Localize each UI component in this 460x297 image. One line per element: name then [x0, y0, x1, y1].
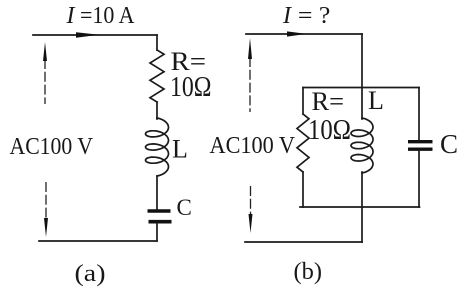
svg-text:C: C [440, 129, 458, 159]
voltage up arrow (b) [249, 57, 251, 112]
wire R branch bottom (b) [302, 172, 304, 207]
svg-text:R=: R= [312, 87, 345, 116]
wire bottom (a) [39, 240, 157, 242]
inductor L2 (b) [351, 118, 373, 173]
svg-text:L: L [368, 86, 384, 115]
svg-text:= ?: = ? [298, 3, 331, 29]
resistor R2 (b) [297, 114, 309, 172]
wire (a) resistor to inductor [156, 102, 158, 119]
wire center vertical (b) top [361, 34, 363, 119]
svg-text:L: L [172, 135, 188, 164]
wire C branch bottom (b) [418, 151, 420, 207]
svg-text:AC100 V: AC100 V [210, 133, 296, 159]
wire top (b) [246, 33, 362, 35]
capacitor C2 (b) plate bottom [408, 147, 433, 150]
wire (a) inductor to capacitor [156, 176, 158, 209]
wire (a) capacitor to bottom [156, 224, 158, 242]
node rail inner top (b) [303, 87, 419, 89]
resistor R1 (a) [150, 50, 164, 102]
current arrow (a) [76, 32, 99, 38]
wire bottom (b) [245, 241, 362, 243]
voltage up arrow (a) [44, 59, 46, 104]
wire C branch top (b) [418, 88, 420, 141]
svg-text:10Ω: 10Ω [170, 72, 212, 103]
voltage down arrow (b) [250, 186, 252, 215]
wire top (a) [33, 34, 157, 36]
svg-text:C: C [177, 195, 192, 220]
inductor L1 (a) [146, 118, 169, 176]
svg-text:I: I [282, 3, 292, 29]
svg-text:(a): (a) [75, 261, 106, 287]
svg-text:=10 A: =10 A [80, 3, 135, 29]
capacitor C2 (b) plate top [408, 140, 433, 143]
current arrow (b) [287, 31, 307, 36]
capacitor C1 (a) plate bottom [149, 220, 172, 224]
svg-text:10Ω: 10Ω [308, 115, 351, 146]
wire R branch top (b) [302, 88, 304, 115]
wire right branch top (a) [156, 35, 158, 50]
voltage down arrow (a) [45, 182, 47, 219]
node rail inner bottom (b) [300, 206, 420, 208]
svg-text:AC100 V: AC100 V [10, 134, 94, 160]
wire center vertical (b) bottom [361, 172, 363, 242]
svg-text:I: I [66, 3, 76, 29]
capacitor C1 (a) plate top [148, 209, 171, 213]
svg-text:(b): (b) [294, 259, 323, 285]
